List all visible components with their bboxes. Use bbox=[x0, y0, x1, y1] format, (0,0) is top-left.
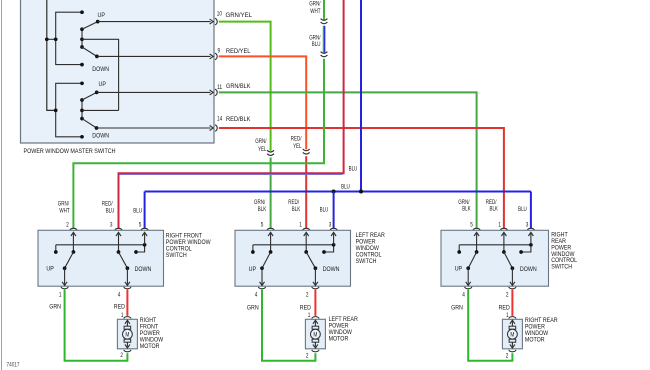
connector right rear motor pin2 bbox=[509, 350, 516, 352]
svg-text:BLK: BLK bbox=[462, 206, 471, 213]
wire RED/YEL pin9 run bbox=[219, 56, 306, 149]
svg-text:RED/: RED/ bbox=[288, 199, 299, 206]
connector left rear pin3 bbox=[330, 228, 337, 230]
svg-text:BLU: BLU bbox=[133, 208, 142, 215]
connector pin 9 bbox=[215, 53, 217, 60]
svg-text:UP: UP bbox=[249, 266, 257, 273]
svg-text:BLU: BLU bbox=[518, 206, 527, 213]
svg-text:RED/: RED/ bbox=[291, 136, 302, 143]
right rear motor top lead bbox=[510, 320, 515, 326]
connector right rear pin3 bbox=[527, 228, 534, 230]
label pin 1 right rear bbox=[498, 223, 501, 229]
svg-text:POWER WINDOW MASTER SWITCH: POWER WINDOW MASTER SWITCH bbox=[24, 148, 116, 155]
svg-text:BLU: BLU bbox=[106, 208, 115, 215]
right rear DOWN output lead bbox=[510, 268, 515, 285]
sw1 DOWN wiper arm bbox=[82, 47, 99, 58]
svg-text:WHT: WHT bbox=[59, 208, 69, 215]
svg-text:BLK: BLK bbox=[258, 206, 267, 213]
right rear UP output lead bbox=[466, 268, 471, 285]
sw2 DOWN wiper arm bbox=[82, 119, 98, 130]
wire GRN/BLK pin11 run bbox=[219, 92, 477, 228]
connector right rear switch pin out right bbox=[509, 287, 516, 289]
label motor pin2 right front bbox=[120, 353, 123, 359]
motor symbol M left rear bbox=[311, 329, 321, 339]
svg-text:GRN/: GRN/ bbox=[254, 199, 265, 206]
label UP sw2 bbox=[99, 81, 107, 88]
svg-text:RED/BLK: RED/BLK bbox=[226, 116, 251, 123]
connector C mid red bbox=[303, 149, 310, 154]
left rear internal bus bbox=[253, 244, 334, 246]
wire GRN/BLU segment bbox=[323, 26, 324, 53]
motor box left rear bbox=[305, 319, 325, 349]
wire RED/BLK to left rear pin1 bbox=[305, 156, 307, 228]
motor box right front bbox=[117, 319, 137, 349]
wire RED right front feed bbox=[126, 290, 128, 316]
pin number 14 bbox=[217, 117, 223, 123]
connector pin 10 bbox=[215, 18, 217, 25]
wire GRN left rear return bbox=[262, 290, 315, 361]
wire BLU drop to right rear pin3 bbox=[530, 192, 532, 229]
right rear internal bus bbox=[459, 244, 531, 246]
label GRN left rear bbox=[247, 305, 259, 312]
label pin4 right front bottom bbox=[118, 292, 121, 298]
svg-text:UP: UP bbox=[46, 266, 54, 273]
label DOWN right front bbox=[135, 266, 152, 273]
label motor pin1 right rear bbox=[506, 313, 509, 319]
label right rear switch name bbox=[551, 232, 577, 271]
label RED/BLK pin14 bbox=[226, 116, 251, 123]
label GRN/ BLK left rear bbox=[254, 199, 267, 213]
wire RED/BLK pin14 run bbox=[219, 128, 504, 228]
right front motor brush bottom bbox=[124, 339, 131, 342]
label RED left rear bbox=[300, 305, 311, 312]
svg-text:WHT: WHT bbox=[310, 8, 320, 15]
sw1 contact bracket bbox=[56, 12, 82, 64]
wire RED left rear feed bbox=[314, 290, 316, 316]
label GRN right rear bbox=[451, 305, 463, 312]
wire GRN/BLK to left rear pin5 bbox=[270, 158, 272, 229]
wire RED right rear feed bbox=[511, 290, 513, 316]
right rear right contact stub bbox=[519, 243, 533, 254]
wire pin10 out bbox=[98, 19, 214, 24]
label POWER WINDOW MASTER SWITCH bbox=[24, 148, 116, 155]
label DOWN sw2 bbox=[92, 132, 109, 139]
label GRN/BLK pin11 bbox=[226, 83, 251, 90]
right front left pin lead bbox=[71, 232, 76, 253]
wire pin14 out bbox=[97, 126, 214, 131]
label motor name right front bbox=[140, 317, 164, 350]
motor box right rear bbox=[502, 319, 522, 349]
label pin 5 right front bbox=[139, 223, 142, 229]
svg-text:RED/: RED/ bbox=[102, 201, 113, 208]
label UP left rear bbox=[249, 266, 257, 273]
right rear UP wiper arm bbox=[466, 252, 476, 270]
svg-text:UP: UP bbox=[98, 12, 106, 19]
svg-text:GRN/BLK: GRN/BLK bbox=[226, 83, 251, 90]
left rear UP wiper arm bbox=[260, 252, 270, 270]
connector left rear motor pin1 bbox=[312, 317, 319, 319]
label RED/YEL pin9 bbox=[226, 48, 251, 55]
connector left rear motor pin2 bbox=[312, 350, 319, 352]
label left rear switch name bbox=[356, 232, 385, 265]
wire GRN/WHT to right front pin2 bbox=[73, 59, 324, 228]
label DOWN right rear bbox=[520, 266, 537, 273]
sw1 pole bar bbox=[80, 27, 84, 49]
right front motor brush top bbox=[124, 326, 131, 329]
svg-text:GRN/: GRN/ bbox=[255, 138, 266, 145]
label UP sw1 bbox=[98, 12, 106, 19]
svg-text:BLU: BLU bbox=[341, 183, 350, 190]
label pin 3 right rear bbox=[526, 223, 529, 229]
connector pin 14 bbox=[215, 125, 217, 132]
label right front switch name bbox=[166, 233, 211, 259]
svg-text:DOWN: DOWN bbox=[92, 66, 109, 73]
connector left rear switch pin out left bbox=[258, 287, 265, 289]
label pin 5 left rear bbox=[261, 223, 264, 229]
svg-text:M: M bbox=[510, 332, 514, 339]
box right rear power window control switch bbox=[441, 230, 549, 286]
right front left contact stub bbox=[54, 245, 58, 254]
svg-text:SWITCH: SWITCH bbox=[166, 252, 187, 259]
svg-text:RED: RED bbox=[114, 304, 125, 311]
right rear left pin lead bbox=[474, 232, 479, 253]
label motor pin2 right rear bbox=[506, 353, 509, 359]
connector right front pin3 bbox=[115, 228, 122, 230]
right front DOWN wiper arm bbox=[119, 252, 130, 270]
label DOWN sw1 bbox=[92, 66, 109, 73]
connector C mid green bbox=[267, 150, 274, 155]
svg-text:GRN: GRN bbox=[49, 304, 61, 311]
left rear motor brush bottom bbox=[312, 339, 319, 342]
label motor pin2 left rear bbox=[306, 353, 309, 359]
svg-text:14: 14 bbox=[217, 117, 223, 123]
sw2 UP wiper arm bbox=[82, 91, 99, 100]
right front motor bottom lead bbox=[125, 342, 130, 348]
connector right rear pin5 bbox=[473, 228, 480, 230]
right rear DOWN wiper arm bbox=[504, 252, 514, 270]
right front UP wiper arm bbox=[63, 252, 74, 270]
label motor name left rear bbox=[329, 316, 358, 342]
connector right front switch pin out right bbox=[124, 287, 131, 289]
label GRN/YEL pin10 bbox=[226, 12, 253, 19]
svg-text:UP: UP bbox=[99, 81, 107, 88]
label pin 3 right front bbox=[110, 223, 113, 229]
connector pin 11 bbox=[215, 89, 217, 96]
svg-text:M: M bbox=[313, 332, 317, 339]
svg-text:M: M bbox=[125, 332, 129, 339]
svg-text:11: 11 bbox=[217, 85, 223, 91]
svg-text:YEL: YEL bbox=[293, 143, 302, 150]
svg-text:UP: UP bbox=[455, 266, 463, 273]
wire pin9 out bbox=[97, 54, 213, 59]
sw1 top contact dot bbox=[80, 10, 84, 14]
pin number 9 bbox=[218, 48, 221, 54]
svg-text:MOTOR: MOTOR bbox=[329, 335, 349, 342]
connector left rear switch pin out right bbox=[312, 287, 319, 289]
label UP right front bbox=[46, 266, 54, 273]
motor symbol M right rear bbox=[508, 329, 518, 339]
svg-text:RED/YEL: RED/YEL bbox=[226, 48, 251, 55]
connector right rear motor pin1 bbox=[509, 317, 516, 319]
svg-text:GRN: GRN bbox=[247, 305, 259, 312]
master switch supply bus wire bbox=[47, 0, 56, 110]
wire BLU from top bbox=[360, 0, 362, 192]
svg-text:RED: RED bbox=[300, 305, 311, 312]
label pin1 right front bottom bbox=[59, 292, 62, 298]
svg-text:RED: RED bbox=[499, 305, 510, 312]
left rear UP output lead bbox=[260, 268, 265, 285]
wire GRN right rear return bbox=[468, 290, 512, 361]
wire RED/BLU from top bbox=[119, 0, 344, 228]
right front internal bus bbox=[56, 244, 145, 246]
label GRN/ WHT right front bbox=[58, 201, 70, 215]
label RED/ YEL mid bbox=[291, 136, 302, 151]
label GRN/ YEL mid bbox=[255, 138, 267, 153]
sw2 bracket-bus junction dot bbox=[54, 109, 58, 113]
wire BLU drop to left rear pin3 bbox=[333, 192, 335, 229]
connector right front motor pin1 bbox=[124, 317, 131, 319]
connector C top 2 bbox=[321, 52, 328, 57]
svg-text:GRN: GRN bbox=[451, 305, 463, 312]
svg-text:SWITCH: SWITCH bbox=[551, 264, 572, 271]
connector right front pin2 bbox=[70, 228, 77, 230]
left page border bbox=[1, 0, 3, 370]
svg-text:MOTOR: MOTOR bbox=[525, 336, 545, 343]
label DOWN left rear bbox=[323, 266, 340, 273]
motor symbol M right front bbox=[123, 329, 133, 339]
label BLU right front bbox=[133, 208, 142, 215]
label pin 1 left rear bbox=[299, 223, 302, 229]
wire sw2 pole bar to bus bbox=[82, 109, 119, 111]
right rear mid pin lead bbox=[501, 232, 506, 253]
label RED/ BLK left rear bbox=[288, 199, 301, 213]
label pin 5 right rear bbox=[470, 223, 473, 229]
label pin4 left rear bottom bbox=[255, 292, 258, 298]
label pin4 right rear bottom bbox=[462, 292, 465, 298]
right rear right pin lead bbox=[528, 232, 533, 244]
svg-text:GRN/: GRN/ bbox=[58, 201, 69, 208]
right rear motor brush bottom bbox=[509, 339, 516, 342]
left rear mid pin lead bbox=[304, 232, 309, 253]
connector right front pin5 bbox=[141, 228, 148, 230]
label GRN/ BLU bbox=[309, 34, 320, 48]
label RED right rear bbox=[499, 305, 510, 312]
label GRN/ BLK right rear bbox=[458, 199, 471, 213]
left rear right pin lead bbox=[331, 232, 336, 244]
left rear motor bottom lead bbox=[313, 342, 318, 348]
svg-text:BLU: BLU bbox=[349, 165, 358, 172]
right front motor top lead bbox=[125, 320, 130, 326]
label RED/ BLU right front bbox=[102, 201, 115, 215]
sw1 UP wiper arm bbox=[82, 20, 100, 29]
label pin 2 right front bbox=[66, 223, 69, 229]
sw2 pole bar bbox=[80, 98, 84, 120]
svg-text:MOTOR: MOTOR bbox=[140, 343, 160, 350]
wire BLU drop to right front pin5 bbox=[144, 192, 146, 229]
label motor pin1 right front bbox=[121, 313, 124, 319]
right front UP output lead bbox=[62, 268, 67, 285]
label RED right front bbox=[114, 304, 125, 311]
wire sw1 pole to sw2 pole bbox=[82, 39, 119, 110]
sw2 bottom contact dot bbox=[80, 135, 84, 139]
left rear left pin lead bbox=[268, 232, 273, 253]
connector left rear pin1 bbox=[303, 228, 310, 230]
sw1 bracket-bus jumper bbox=[45, 37, 58, 41]
left rear motor brush top bbox=[312, 326, 319, 329]
wire GRN/WHT from top bbox=[323, 0, 325, 20]
right rear motor brush top bbox=[509, 326, 516, 329]
left rear right contact stub bbox=[322, 243, 335, 254]
connector left rear pin5 bbox=[267, 228, 274, 230]
svg-text:74017: 74017 bbox=[7, 363, 21, 369]
node blue bus junction left bbox=[332, 189, 336, 193]
label motor name right rear bbox=[525, 317, 558, 343]
connector right front switch pin out left bbox=[61, 287, 68, 289]
svg-text:DOWN: DOWN bbox=[323, 266, 340, 273]
label BLU left rear bbox=[320, 207, 329, 214]
wire GRN/YEL pin10 run bbox=[219, 22, 271, 151]
svg-text:GRN/YEL: GRN/YEL bbox=[226, 12, 253, 19]
right rear motor bottom lead bbox=[510, 342, 515, 348]
pin number 11 bbox=[217, 85, 223, 91]
connector right front motor pin2 bbox=[124, 350, 131, 352]
svg-text:BLK: BLK bbox=[292, 206, 301, 213]
svg-text:DOWN: DOWN bbox=[135, 266, 152, 273]
node blue bus junction right bbox=[359, 189, 363, 193]
label GRN right front bbox=[49, 304, 61, 311]
right rear left contact stub bbox=[457, 245, 461, 254]
wire BLU bus bbox=[145, 191, 531, 193]
sw2 contact bracket bbox=[56, 83, 82, 137]
connector right rear pin1 bbox=[500, 228, 507, 230]
right front right contact stub bbox=[134, 243, 146, 254]
right front mid pin lead bbox=[116, 232, 121, 253]
svg-text:DOWN: DOWN bbox=[520, 266, 537, 273]
svg-text:SWITCH: SWITCH bbox=[356, 258, 377, 265]
power window master switch box bbox=[21, 0, 215, 143]
svg-text:DOWN: DOWN bbox=[92, 132, 109, 139]
label motor pin1 left rear bbox=[308, 313, 311, 319]
left rear DOWN output lead bbox=[313, 268, 318, 285]
svg-text:BLK: BLK bbox=[490, 206, 499, 213]
pin number 10 bbox=[217, 11, 223, 17]
label BLU upper bbox=[349, 165, 358, 172]
wire GRN right front return bbox=[65, 290, 128, 361]
right front right pin lead bbox=[142, 232, 147, 244]
wire pin11 out bbox=[97, 90, 214, 95]
left rear motor top lead bbox=[313, 320, 318, 326]
label pin2 left rear bottom bbox=[306, 292, 309, 298]
svg-text:BLU: BLU bbox=[320, 207, 329, 214]
label pin2 right rear bottom bbox=[506, 292, 509, 298]
box left rear power window control switch bbox=[235, 230, 351, 286]
label BLU bus bbox=[341, 183, 350, 190]
svg-text:YEL: YEL bbox=[258, 146, 267, 153]
label UP right rear bbox=[455, 266, 463, 273]
connector right rear switch pin out left bbox=[465, 287, 472, 289]
box right front power window control switch bbox=[38, 230, 164, 286]
label pin 3 left rear bbox=[329, 223, 332, 229]
svg-text:BLU: BLU bbox=[312, 41, 321, 48]
label RED/ BLK right rear bbox=[486, 199, 499, 213]
label BLU right rear bbox=[518, 206, 527, 213]
diagram number 74017 bbox=[7, 363, 21, 369]
left rear DOWN wiper arm bbox=[306, 252, 317, 270]
connector C top 1 bbox=[321, 19, 328, 24]
sw2 top contact dot bbox=[80, 81, 84, 85]
label GRN/ WHT top bbox=[309, 0, 320, 15]
left rear left contact stub bbox=[251, 245, 255, 254]
right front DOWN output lead bbox=[125, 268, 130, 285]
svg-text:10: 10 bbox=[217, 11, 223, 17]
sw1 bottom contact dot bbox=[80, 63, 84, 67]
svg-text:GRN/: GRN/ bbox=[309, 0, 320, 7]
